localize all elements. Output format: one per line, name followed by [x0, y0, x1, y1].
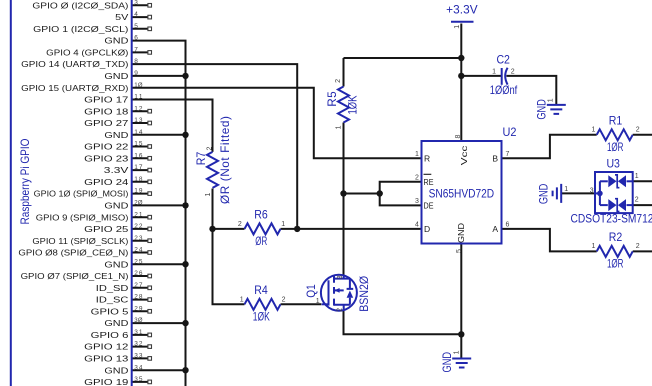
svg-text:GND: GND — [440, 352, 454, 373]
svg-text:13: 13 — [134, 117, 143, 124]
svg-text:8: 8 — [455, 135, 462, 139]
svg-text:A: A — [492, 224, 498, 234]
svg-text:1: 1 — [205, 193, 212, 197]
svg-text:21: 21 — [134, 211, 143, 218]
svg-text:DE: DE — [424, 201, 434, 211]
svg-text:2: 2 — [238, 221, 242, 228]
svg-text:1ØK: 1ØK — [253, 309, 270, 323]
svg-text:18: 18 — [134, 176, 143, 183]
svg-text:23: 23 — [134, 235, 143, 242]
svg-text:Vcc: Vcc — [459, 145, 469, 166]
svg-text:19: 19 — [134, 188, 143, 195]
svg-text:14: 14 — [134, 129, 143, 136]
svg-text:GPIO 11 (SPIØ_SCLK): GPIO 11 (SPIØ_SCLK) — [32, 236, 128, 246]
svg-text:2: 2 — [335, 79, 342, 83]
svg-text:1: 1 — [492, 69, 496, 76]
svg-text:15: 15 — [134, 141, 143, 148]
svg-text:GPIO 25: GPIO 25 — [84, 224, 129, 234]
svg-text:2: 2 — [415, 174, 419, 181]
svg-text:U3: U3 — [606, 157, 620, 171]
svg-text:8: 8 — [134, 58, 138, 65]
svg-text:U2: U2 — [503, 125, 517, 139]
svg-text:12: 12 — [134, 105, 143, 112]
svg-text:GND: GND — [104, 259, 128, 269]
svg-text:3: 3 — [415, 198, 419, 205]
svg-text:1: 1 — [454, 25, 461, 29]
svg-text:ID_SC: ID_SC — [96, 295, 129, 305]
svg-text:Raspberry Pi GPIO: Raspberry Pi GPIO — [18, 139, 32, 225]
svg-text:1: 1 — [591, 243, 595, 250]
svg-text:2: 2 — [635, 197, 639, 204]
svg-text:GPIO 27: GPIO 27 — [84, 118, 129, 128]
svg-text:ØR (Not Fitted): ØR (Not Fitted) — [218, 116, 232, 204]
svg-text:2: 2 — [636, 243, 640, 250]
svg-text:Q1: Q1 — [304, 284, 318, 298]
svg-text:17: 17 — [134, 164, 143, 171]
svg-text:GPIO Ø8 (SPIØ_CEØ_N): GPIO Ø8 (SPIØ_CEØ_N) — [18, 248, 128, 258]
svg-text:R4: R4 — [254, 283, 268, 297]
svg-text:34: 34 — [134, 364, 143, 371]
svg-text:2: 2 — [282, 297, 286, 304]
svg-text:GPIO 1Ø (SPIØ_MOSI): GPIO 1Ø (SPIØ_MOSI) — [34, 189, 129, 199]
svg-text:1: 1 — [281, 221, 285, 228]
svg-text:9: 9 — [134, 70, 138, 77]
svg-text:ID_SD: ID_SD — [96, 283, 129, 293]
svg-text:3.3V: 3.3V — [104, 165, 129, 175]
svg-text:28: 28 — [134, 294, 143, 301]
svg-text:1: 1 — [415, 151, 419, 158]
svg-text:7: 7 — [134, 47, 138, 54]
svg-text:3: 3 — [590, 187, 594, 194]
svg-text:31: 31 — [134, 329, 143, 336]
svg-text:4: 4 — [415, 221, 419, 228]
svg-text:GPIO 17: GPIO 17 — [84, 95, 129, 105]
svg-text:GND: GND — [104, 365, 128, 375]
svg-text:1ØK: 1ØK — [345, 95, 359, 114]
svg-text:4: 4 — [134, 11, 138, 18]
svg-text:1ØR: 1ØR — [607, 257, 624, 271]
svg-text:1: 1 — [240, 297, 244, 304]
svg-text:GPIO 1 (I2CØ_SCL): GPIO 1 (I2CØ_SCL) — [33, 24, 128, 34]
svg-text:GPIO Ø7 (SPIØ_CE1_N): GPIO Ø7 (SPIØ_CE1_N) — [21, 271, 129, 281]
svg-text:GND: GND — [456, 223, 466, 243]
svg-text:GPIO 23: GPIO 23 — [84, 153, 129, 163]
svg-text:GPIO 22: GPIO 22 — [84, 142, 129, 152]
svg-text:R6: R6 — [254, 208, 268, 222]
svg-text:2Ø: 2Ø — [134, 200, 142, 207]
svg-text:1: 1 — [591, 127, 595, 134]
svg-text:5: 5 — [456, 249, 463, 253]
svg-text:25: 25 — [134, 258, 143, 265]
svg-text:16: 16 — [134, 152, 143, 159]
svg-text:3: 3 — [337, 275, 344, 279]
svg-text:D: D — [424, 224, 430, 234]
svg-text:1: 1 — [564, 186, 568, 193]
svg-text:GND: GND — [104, 71, 128, 81]
svg-text:24: 24 — [134, 247, 143, 254]
svg-text:R: R — [424, 153, 430, 163]
svg-text:3: 3 — [134, 0, 138, 6]
svg-text:2: 2 — [511, 69, 515, 76]
svg-text:6: 6 — [506, 221, 510, 228]
svg-text:GPIO 13: GPIO 13 — [84, 354, 129, 364]
svg-text:C2: C2 — [496, 52, 510, 66]
svg-text:GND: GND — [537, 184, 551, 205]
svg-text:GND: GND — [104, 318, 128, 328]
svg-text:GPIO 9 (SPIØ_MISO): GPIO 9 (SPIØ_MISO) — [36, 212, 129, 222]
svg-text:GPIO 15 (UARTØ_RXD): GPIO 15 (UARTØ_RXD) — [21, 83, 128, 93]
svg-text:27: 27 — [134, 282, 143, 289]
svg-text:3Ø: 3Ø — [134, 317, 142, 324]
svg-text:GPIO Ø (I2CØ_SDA): GPIO Ø (I2CØ_SDA) — [32, 0, 128, 10]
svg-text:1Ø: 1Ø — [134, 82, 142, 89]
svg-text:11: 11 — [134, 94, 143, 101]
svg-text:GPIO 18: GPIO 18 — [84, 106, 129, 116]
svg-text:R5: R5 — [325, 91, 339, 107]
svg-text:GPIO 19: GPIO 19 — [84, 377, 129, 386]
svg-text:6: 6 — [134, 35, 138, 42]
svg-text:R7: R7 — [194, 152, 208, 166]
svg-text:GPIO 4 (GPCLKØ): GPIO 4 (GPCLKØ) — [46, 48, 128, 58]
svg-text:1ØØnf: 1ØØnf — [490, 83, 518, 97]
svg-text:GND: GND — [104, 201, 128, 211]
svg-text:GPIO 24: GPIO 24 — [84, 177, 129, 187]
svg-text:GND: GND — [104, 130, 128, 140]
svg-text:R2: R2 — [609, 230, 623, 244]
svg-text:35: 35 — [134, 376, 143, 383]
svg-text:26: 26 — [134, 270, 143, 277]
svg-text:1: 1 — [547, 98, 554, 102]
svg-text:B: B — [492, 153, 498, 163]
svg-text:GPIO 5: GPIO 5 — [91, 306, 129, 316]
svg-text:CDSOT23-SM712: CDSOT23-SM712 — [571, 211, 652, 225]
svg-text:1: 1 — [453, 350, 460, 354]
svg-text:R1: R1 — [609, 114, 623, 128]
svg-text:1: 1 — [635, 173, 639, 180]
svg-text:22: 22 — [134, 223, 143, 230]
svg-text:1: 1 — [336, 125, 343, 129]
svg-text:SN65HVD72D: SN65HVD72D — [429, 186, 495, 200]
svg-text:GPIO 14 (UARTØ_TXD): GPIO 14 (UARTØ_TXD) — [21, 59, 128, 69]
svg-text:1: 1 — [316, 298, 320, 305]
svg-text:2: 2 — [336, 308, 343, 312]
svg-text:GND: GND — [534, 99, 548, 120]
svg-text:GPIO 6: GPIO 6 — [91, 330, 129, 340]
svg-text:GND: GND — [104, 36, 128, 46]
svg-text:29: 29 — [134, 305, 143, 312]
svg-text:2: 2 — [636, 127, 640, 134]
svg-text:5: 5 — [134, 23, 138, 30]
svg-text:GPIO 12: GPIO 12 — [84, 342, 129, 352]
svg-text:+3.3V: +3.3V — [446, 2, 478, 16]
svg-text:33: 33 — [134, 353, 143, 360]
svg-text:BSN2Ø: BSN2Ø — [357, 276, 371, 312]
svg-text:2: 2 — [207, 147, 214, 151]
svg-text:7: 7 — [506, 151, 510, 158]
svg-text:5V: 5V — [115, 12, 129, 22]
svg-text:1ØR: 1ØR — [607, 140, 624, 154]
svg-text:ØR: ØR — [255, 234, 267, 248]
svg-text:32: 32 — [134, 341, 143, 348]
